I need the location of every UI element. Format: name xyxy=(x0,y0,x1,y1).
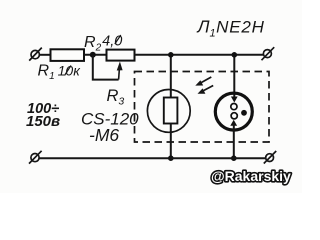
terminal X4 (bottom right) xyxy=(264,151,276,164)
wire (R3 bottom lead) xyxy=(170,124,172,159)
svg-text:Л1NE2H: Л1NE2H xyxy=(197,17,265,40)
node A (junction dot R1/R2/wiper) xyxy=(90,52,96,58)
label R2 slashed zero stroke xyxy=(115,35,121,44)
wire (R2 to terminal top right) xyxy=(135,54,264,56)
wiper arrow of R2 xyxy=(117,62,123,80)
wire (top wire to neon lamp L1) xyxy=(233,55,235,100)
photoresistor R3 resistor rectangle xyxy=(164,98,178,124)
wire (R1 to R2) xyxy=(84,54,107,56)
light arrows (radiation onto R3) xyxy=(195,77,213,94)
resistor R1 xyxy=(51,49,85,61)
node (dot bottom wire / R3) xyxy=(168,155,174,161)
wire (neon lamp bottom lead) xyxy=(233,124,235,159)
wire (bottom rail) xyxy=(39,157,266,159)
terminal X1 (top left input) xyxy=(29,48,42,61)
label R1 slashed zero stroke xyxy=(65,66,72,76)
optocoupler dashed enclosure xyxy=(135,72,270,143)
node (dot bottom wire / L1) xyxy=(231,155,237,161)
svg-text:150в: 150в xyxy=(26,113,60,130)
photoresistor R3 body circle xyxy=(147,90,190,133)
wire (wiper tap: node A down and right) xyxy=(93,55,119,80)
wire (top wire to photoresistor R3) xyxy=(170,55,172,98)
svg-text:-М6: -М6 xyxy=(89,125,119,145)
node (dot top wire / L1) xyxy=(232,52,238,58)
wire (terminal X1 to R1) xyxy=(39,54,50,56)
node (dot top wire / R3) xyxy=(168,52,174,58)
terminal X2 (top right) xyxy=(262,47,275,60)
neon lamp top electrode xyxy=(231,97,238,103)
svg-text:@Rakarskiy: @Rakarskiy xyxy=(211,168,291,184)
neon lamp bottom electrode xyxy=(231,113,237,119)
neon lamp L1 bulb xyxy=(215,93,252,130)
terminal X3 (bottom left) xyxy=(29,151,42,164)
resistor R2 (rheostat) xyxy=(107,50,135,61)
neon lamp gas dot xyxy=(241,110,247,116)
